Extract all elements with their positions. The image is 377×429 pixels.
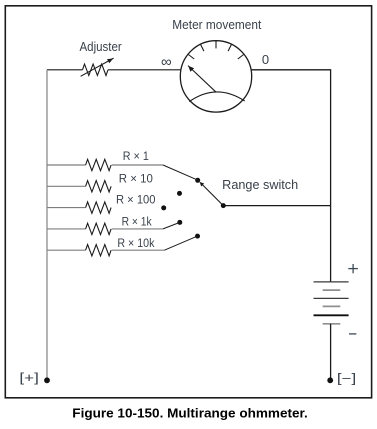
svg-text:R × 10k: R × 10k [117,238,154,250]
wire: R4 to contact 4 [163,222,180,229]
battery short plate 1 [323,289,341,291]
meter scale ticks [188,41,243,59]
node: positive terminal [44,377,50,383]
svg-text:0: 0 [262,52,269,67]
contact 5 [195,234,200,239]
resistor R5 row [47,249,86,251]
label: battery + [348,264,358,273]
label: battery minus [349,333,356,335]
battery short plate 3 [323,323,341,325]
wire: R1 to contact 1 [163,165,198,180]
battery long plate 3 [314,314,349,316]
battery long plate 1 [314,281,349,283]
svg-text:[−]: [−] [337,371,356,385]
svg-text:Adjuster: Adjuster [80,40,122,54]
wire: adjuster to meter [108,69,181,71]
wire: left bus [46,70,48,380]
wire: meter to right rail, down to battery [251,70,330,282]
svg-text:∞: ∞ [161,53,172,70]
resistor R1 row [47,164,86,166]
wire: R5 to contact 5 [164,236,197,250]
svg-text:Figure 10-150. Multirange ohmm: Figure 10-150. Multirange ohmmeter. [72,407,307,421]
resistor R3 row [47,207,86,209]
contact 4 [177,220,182,225]
wire: range switch common to right rail [223,205,330,207]
svg-text:R × 1k: R × 1k [122,216,152,228]
battery long plate 2 [314,297,349,299]
svg-text:Meter movement: Meter movement [172,18,261,32]
switch arm [203,185,224,206]
battery short plate 2 [323,305,341,307]
svg-text:[+]: [+] [19,371,39,385]
resistor R4 row [47,228,86,230]
switch pivot [221,203,226,208]
svg-text:Range switch: Range switch [222,178,298,192]
svg-text:R × 100: R × 100 [116,195,156,207]
contact 2 [177,191,182,196]
meter M1: movement circle [180,41,251,112]
node: negative terminal [327,377,333,383]
rheostat arrow [81,58,114,76]
wire: top wire left segment (bus corner to adjuster) [47,69,83,71]
resistor R2 row [47,185,86,187]
contact 3 [161,205,166,210]
meter bottom scale arc [189,92,244,102]
svg-text:R × 10: R × 10 [119,173,153,185]
wire: battery to negative terminal [330,324,332,380]
contact 1 [195,178,200,183]
resistor: adjuster rheostat zigzag [83,64,109,75]
meter needle [188,66,216,93]
svg-text:R × 1: R × 1 [123,151,149,163]
